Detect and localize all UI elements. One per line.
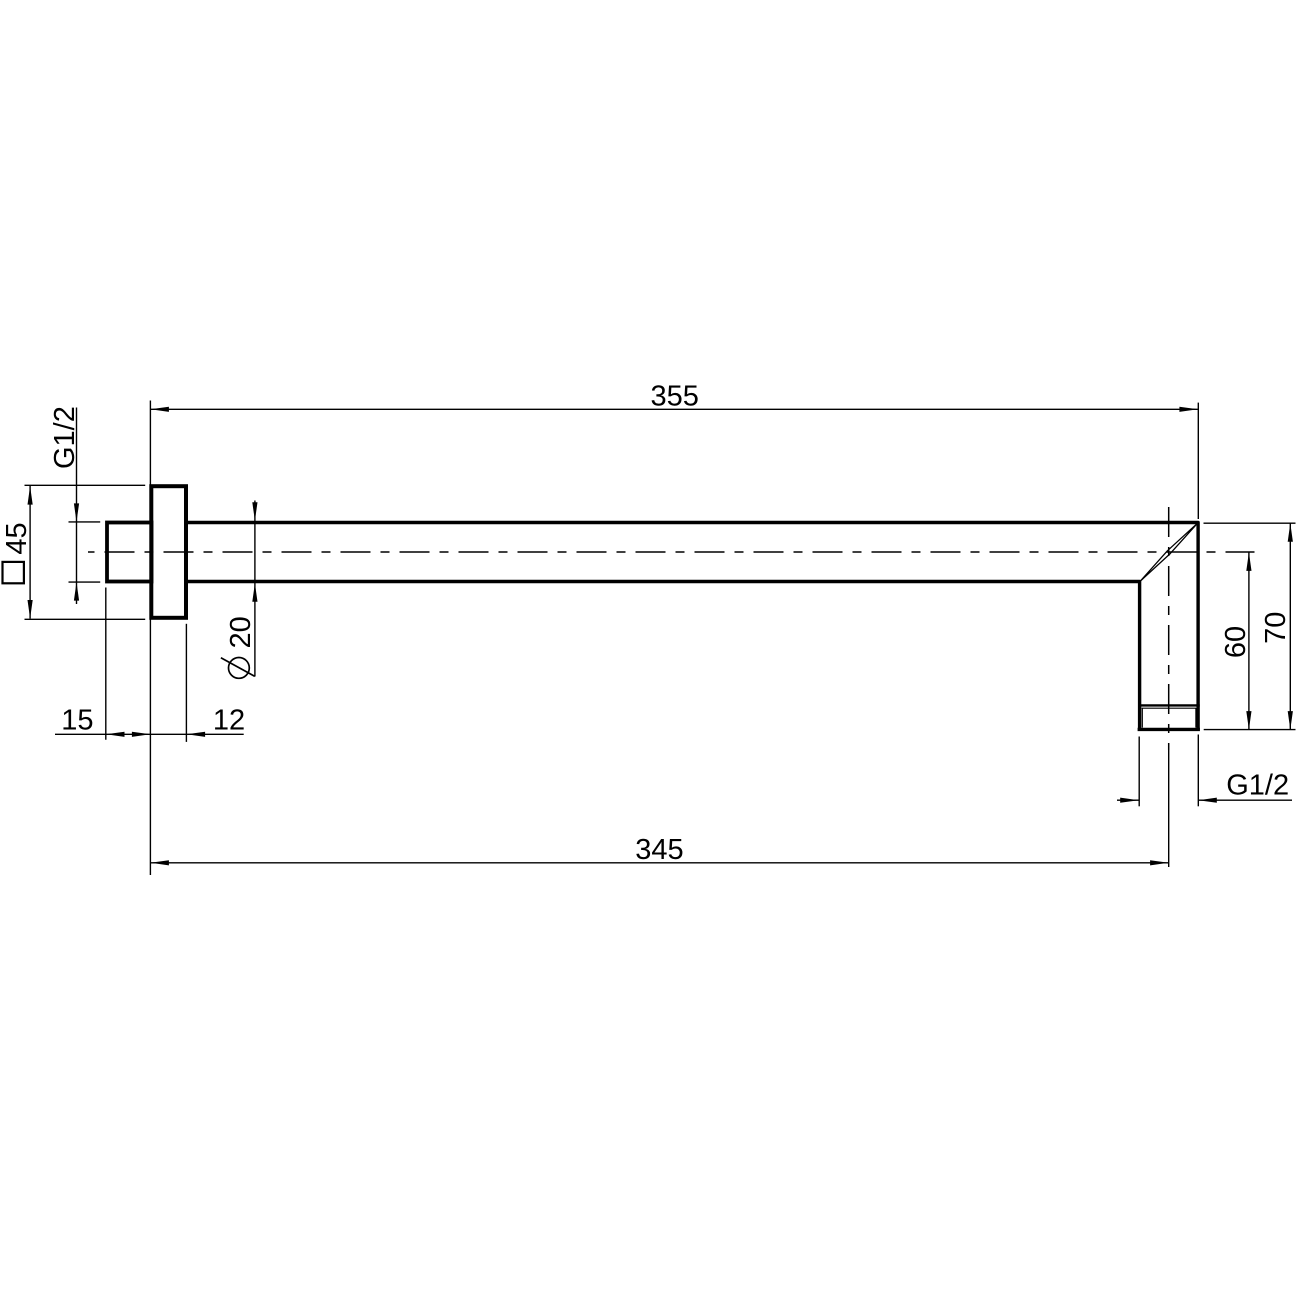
dimension G1/2 right: left outside arrowhead (pointing right) <box>1120 798 1139 803</box>
svg-text:15: 15 <box>61 705 93 737</box>
dimension 345: dimension line <box>150 862 1168 864</box>
dimension 45: top extension line <box>25 484 146 486</box>
svg-text:20: 20 <box>225 616 257 648</box>
dimension G1/2 left: bottom extension line <box>69 581 101 583</box>
corner chamfer seam sliver <box>1140 523 1198 582</box>
outlet cap bottom line <box>1138 728 1200 731</box>
dimension diameter 20: diameter symbol slash <box>221 658 255 677</box>
dimension diameter 20: diameter symbol circle <box>229 658 250 679</box>
dimension G1/2 right: right extension line <box>1197 735 1199 807</box>
svg-text:G1/2: G1/2 <box>49 406 81 469</box>
dimension G1/2 right: right outside arrowhead (pointing left) <box>1198 798 1217 803</box>
svg-text:345: 345 <box>635 834 683 866</box>
vertical pipe centerline <box>1168 507 1170 750</box>
svg-text:12: 12 <box>213 705 245 737</box>
dimension 12: right extension line <box>185 624 187 742</box>
dimension 45: bottom extension line <box>25 618 146 620</box>
dimension 60: dimension line <box>1248 552 1250 729</box>
dimension G1/2 right: left extension line <box>1138 737 1140 807</box>
dimension 45: square symbol <box>3 562 24 583</box>
dimensions 60/70: bottom extension line <box>1204 729 1296 731</box>
dimension 15: left arrowhead <box>106 732 125 737</box>
dimension 355: left extension line (long) <box>149 401 151 876</box>
dimension 355: right extension line <box>1197 403 1199 519</box>
dimension 345: right arrowhead <box>1150 860 1169 865</box>
dimension 345: left arrowhead <box>150 860 169 865</box>
dimension diameter 20: upper arrowhead (outside, pointing down) <box>252 502 257 521</box>
dimension 70: dimension line <box>1289 523 1291 729</box>
wall flange <box>151 486 186 618</box>
dimension 355: dimension line <box>150 408 1198 410</box>
outlet cap inner right line <box>1195 708 1197 728</box>
dimension 70: top extension line <box>1204 522 1296 524</box>
dimension diameter 20: dimension line <box>254 501 256 677</box>
dimension G1/2 left: dimension line <box>76 408 78 605</box>
wall stub (G1/2 inlet) <box>107 523 152 582</box>
svg-text:60: 60 <box>1220 626 1252 658</box>
horizontal centerline <box>88 551 1255 553</box>
arm tube bottom edge and vertical pipe left edge <box>188 582 1140 731</box>
dimension 45: top arrowhead <box>28 486 33 505</box>
dimension G1/2 left: lower arrowhead (outside, pointing up) <box>74 582 79 601</box>
dimension 70: bottom arrowhead <box>1288 711 1293 730</box>
dimension 60: top arrowhead <box>1246 552 1251 571</box>
dimension 45: bottom arrowhead <box>28 600 33 619</box>
dimension diameter 20: lower arrowhead (outside, pointing up) <box>252 583 257 602</box>
dimension 15: right arrowhead / dimension 12 outside left arrowhead <box>132 732 151 737</box>
svg-text:45: 45 <box>1 522 33 554</box>
svg-text:G1/2: G1/2 <box>1226 770 1289 802</box>
dimension 15: left extension line <box>105 588 107 740</box>
svg-text:355: 355 <box>651 380 699 412</box>
dimension 45: dimension line <box>29 486 31 619</box>
outlet cap inner left line <box>1141 708 1143 728</box>
dimension 355: right arrowhead <box>1179 407 1198 412</box>
svg-text:70: 70 <box>1260 612 1292 644</box>
dimension G1/2 right: right dimension line segment <box>1198 799 1292 801</box>
vertical centerline extension to 345 dimension <box>1168 750 1170 867</box>
arm tube top edge and vertical pipe right edge <box>188 523 1198 731</box>
outlet cap inner shoulder line <box>1142 707 1197 709</box>
dimension 60: bottom arrowhead <box>1246 711 1251 730</box>
outlet cap top line <box>1138 704 1200 706</box>
dimension 12: outside right arrowhead <box>187 732 206 737</box>
dimension 355: left arrowhead <box>150 407 169 412</box>
dimension G1/2 right: left dimension line segment <box>1117 799 1139 801</box>
dimension G1/2 left: top extension line <box>69 521 101 523</box>
dimensions 15 and 12: shared dimension line <box>55 733 244 735</box>
dimension 70: top arrowhead <box>1288 523 1293 542</box>
dimension G1/2 left: upper arrowhead (outside, pointing down) <box>74 503 79 522</box>
